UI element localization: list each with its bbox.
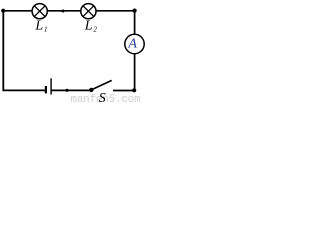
svg-text:L: L: [84, 18, 93, 33]
svg-text:2: 2: [93, 25, 97, 33]
svg-text:1: 1: [44, 25, 48, 33]
svg-text:A: A: [127, 37, 137, 52]
svg-text:S: S: [99, 91, 106, 103]
svg-text:L: L: [34, 18, 43, 33]
